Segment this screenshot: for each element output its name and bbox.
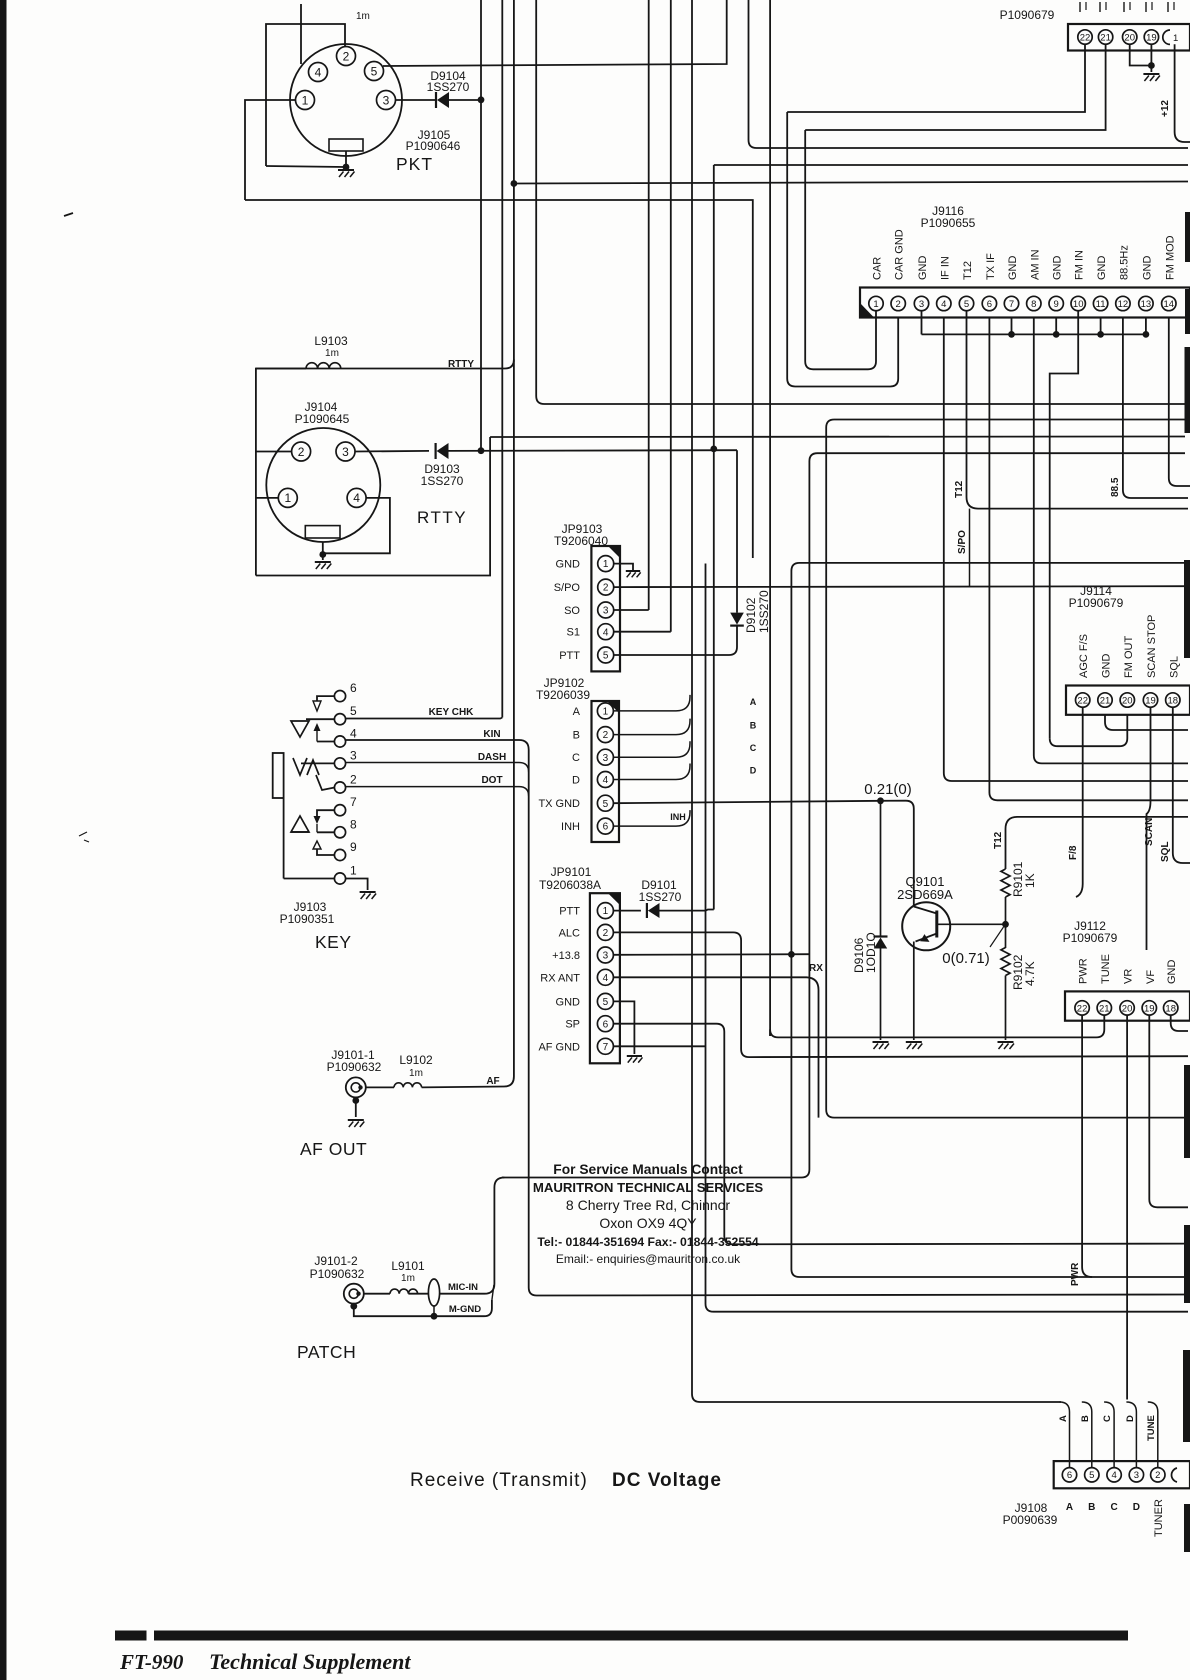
svg-text:DC Voltage: DC Voltage [612,1470,722,1491]
svg-text:DOT: DOT [481,775,502,786]
svg-text:S1: S1 [567,627,580,639]
ground of J9113 [1143,73,1159,75]
wire trunk x648 SO from top [648,0,650,610]
svg-text:4: 4 [353,491,360,505]
wire gnd riser J9116 [1055,318,1057,335]
wire pin3 JP9103 to trunk SO [614,609,649,611]
svg-text:B: B [573,730,580,742]
svg-text:SQL: SQL [1168,656,1180,678]
pin 7 J9116 (GND) [1004,296,1018,310]
pin 7 JP9101 (AF GND) [597,1038,613,1054]
wire trunk y437 east [490,436,1185,439]
svg-text:PWR: PWR [1078,958,1090,984]
svg-text:D: D [1125,1415,1136,1422]
svg-text:TUNER: TUNER [1153,1499,1165,1537]
pin 22 J9112 (PWR) [1075,1001,1089,1015]
diode D9103 1SS270 [435,443,437,459]
svg-text:6: 6 [1067,1470,1072,1481]
svg-text:C: C [1110,1502,1117,1513]
svg-text:2: 2 [603,583,609,594]
wire pin22 J9112 PWR down merge y1277 [1082,1015,1092,1277]
wire pin4 J9105 to top edge [300,4,302,64]
svg-text:A: A [1058,1415,1069,1422]
wire pin6 J9116 TX IF down-east [989,318,1188,801]
pin 22 J9114 (AGC F/S) [1076,693,1090,707]
svg-text:5: 5 [371,64,378,78]
pin 3 J9116 (GND) [914,296,928,310]
DIN connector J9104 RTTY body [266,428,380,542]
node PATCH jack stem [350,1303,357,1310]
phono jack J9101-2 [344,1284,364,1304]
wire pin10 J9116 FM IN jog down [1050,311,1079,739]
pin 9 J9116 (GND) [1049,296,1063,310]
wire pin2 J9105 up and left [266,24,345,166]
svg-text:7: 7 [350,795,357,809]
connector J9116 P1090655 box [860,288,1190,318]
wire pin6 JP9102 INH curl to bus [613,810,690,826]
svg-text:INH: INH [670,812,686,822]
wire pin20 J9112 VR down to bus corner [1126,1015,1128,1399]
phono jack J9101-1 [346,1077,366,1097]
svg-text:5: 5 [350,704,357,718]
wire pin2 JP9103 S/PO east [614,585,1188,588]
wire KEY 6 with switch arrow [317,696,335,701]
wire pin1 J9104 to left frame [256,497,278,499]
svg-text:21: 21 [1100,32,1111,43]
wire pin21 J9112 TUNE west to trunk x770 [770,1015,1104,1037]
pin 5 J9116 (T12) [959,296,973,310]
svg-text:AGC F/S: AGC F/S [1078,634,1090,678]
pin 13 J9116 (GND) [1139,296,1153,310]
svg-text:SP: SP [565,1019,580,1031]
svg-text:TUNE: TUNE [1146,1415,1157,1441]
wire vertical x713.8 y165-910 D9101 net [713,165,715,449]
svg-text:Receive (Transmit): Receive (Transmit) [410,1470,588,1491]
svg-text:9: 9 [350,840,357,854]
wire TX GND to collector [881,801,914,907]
wire pin4 JP9102 D curl to bus [613,764,690,780]
svg-text:P1090679: P1090679 [1069,596,1124,610]
wire pin7 JP9101 AF GND route [613,1045,705,1047]
svg-text:4: 4 [941,299,946,310]
pin 18 J9112 (GND) [1164,1001,1178,1015]
wire vertical x705.5 from y563 trunk to AF GND east exit [706,564,1189,1312]
svg-text:11: 11 [1096,299,1106,310]
svg-text:GND: GND [556,559,581,571]
KEY arrow contact between 4 and 5 [314,723,321,731]
wire pin3 J9105 to diode D9104 [395,99,436,101]
label 0(0.71) with callout [990,927,1004,947]
svg-text:L9101: L9101 [391,1259,425,1273]
pin 4 J9116 (IF IN) [937,296,951,310]
svg-text:4: 4 [603,973,609,984]
svg-text:GND: GND [1007,256,1019,281]
pin 4 JP9101 (RX ANT) [597,969,613,985]
wire GND bus J9116 [921,311,923,335]
wire pin19 J9114 SCAN STOP down [1147,707,1151,950]
svg-text:4: 4 [350,727,357,741]
wire pin4 J9116 IF IN down-east [944,318,1188,782]
svg-text:21: 21 [1099,1003,1110,1014]
svg-text:5: 5 [603,651,609,662]
ground of J9104 [322,542,324,553]
DIN connector J9105 PKT body [290,44,402,156]
svg-text:2: 2 [343,49,350,63]
svg-text:2SD669A: 2SD669A [897,887,953,902]
wire bus trunk x692 from top [691,0,693,1394]
wire S/PO riser to y509 [969,509,971,587]
svg-text:5: 5 [603,997,609,1008]
svg-text:GND: GND [1096,256,1108,281]
pin 14 J9116 (FM MOD) [1162,296,1176,310]
resistor R9102 4.7K [1005,924,1007,948]
pin 20 J9113 [1123,30,1137,44]
pin 4 JP9103 [598,624,614,640]
svg-text:3: 3 [603,606,609,617]
wire KIN bus bottom east [529,1288,1188,1296]
pin 5 of J9105 [365,62,384,81]
svg-text:SCAN: SCAN [1144,818,1155,846]
svg-text:T9206038A: T9206038A [539,878,601,892]
svg-text:P1090646: P1090646 [406,139,461,153]
svg-text:CAR: CAR [872,257,884,280]
wire trunk horizontal y183 east [514,182,1188,184]
pin 1 JP9101 (PTT) [597,903,613,919]
svg-text:5: 5 [1089,1470,1094,1481]
wire trunk x536 from top bend east y404 [536,0,1185,404]
pin 19 J9112 (VF) [1142,1001,1156,1015]
svg-text:1m: 1m [356,11,370,22]
pin 11 J9116 (GND) [1093,296,1107,310]
svg-text:6: 6 [987,299,992,310]
pin 2 J9116 (CAR GND) [891,296,905,310]
pin 12 J9116 (88.5Hz) [1116,296,1130,310]
connector JP9103 box [591,546,620,671]
svg-text:SQL: SQL [1160,841,1171,862]
svg-text:2: 2 [298,445,305,459]
svg-text:CAR GND: CAR GND [894,229,906,280]
pin 18 J9114 (SQL) [1166,693,1180,707]
svg-text:C: C [572,752,580,764]
wire trunk x791 top corner y563 east [791,563,1188,1277]
svg-text:Technical Supplement: Technical Supplement [209,1649,411,1674]
pin 21 J9112 (TUNE) [1097,1001,1111,1015]
pin 10 J9116 (FM IN) [1071,296,1085,310]
svg-text:D: D [1133,1502,1140,1513]
ground of D9106 [873,1041,889,1043]
wire J9104 frame bottom to trunk x490 [256,437,490,576]
svg-text:1: 1 [603,906,609,917]
wire pin18 J9112 GND exit right [1171,1015,1188,1031]
diode D9104 1SS270 [435,92,437,108]
bus drop TUNE to J9108 pin2 [1148,1402,1158,1468]
svg-text:Tel:- 01844-351694 Fax:- 01844: Tel:- 01844-351694 Fax:- 01844-352554 [537,1235,759,1249]
pin 1 J9116 (CAR) [869,296,883,310]
wire pin5 J9116 T12 down [967,311,1189,509]
connector JP9102 box [592,701,620,842]
footer rule bar [115,1631,1128,1641]
svg-text:VF: VF [1145,970,1157,984]
svg-text:A: A [1066,1502,1073,1513]
bus drop D to J9108 pin3 [1126,1402,1136,1468]
wire pin20 pin19 J9113 to ground [1130,44,1152,65]
pin 21 J9114 (GND) [1098,693,1112,707]
svg-text:D: D [750,766,757,776]
svg-text:P1090645: P1090645 [295,412,350,426]
svg-text:0.21(0): 0.21(0) [864,781,912,798]
svg-text:RX ANT: RX ANT [540,972,580,984]
connector J9114 P1090679 box [1066,686,1190,715]
node base R9101 R9102 junction [1002,921,1009,928]
svg-text:2: 2 [896,299,901,310]
svg-text:FM MOD: FM MOD [1164,235,1176,280]
svg-text:9: 9 [1054,299,1059,310]
KEY 8 triangle contact [317,831,335,833]
svg-text:1: 1 [603,559,609,570]
wire D9102 branch down to PTT of JP9103 [730,613,744,625]
svg-text:KEY: KEY [315,932,352,952]
svg-text:2: 2 [350,773,357,787]
wire+ground pin1 JP9103 [614,564,633,570]
connector J9113 P1090679 box top right [1068,24,1190,51]
svg-text:B: B [1088,1502,1095,1513]
svg-text:J9101-2: J9101-2 [314,1254,358,1268]
KEY contact 9 [334,849,345,860]
svg-text:F/8: F/8 [1068,845,1079,860]
wire pin2 J9104 to left frame [256,451,292,453]
wire KEY 5 east KEY CHK [346,718,503,719]
feedthrough capacitor on MIC-IN [408,1293,428,1295]
svg-text:PATCH: PATCH [297,1342,356,1362]
svg-text:18: 18 [1165,1003,1176,1014]
right page-edge bar 8 [1184,1504,1190,1552]
svg-text:GND: GND [1101,654,1113,679]
svg-text:3: 3 [603,951,609,962]
svg-text:DASH: DASH [478,752,506,763]
svg-text:VR: VR [1123,969,1135,984]
pin 2 J9108 [1151,1468,1165,1482]
pin 4 of J9105 [309,63,328,82]
pin 21 J9113 [1098,30,1112,44]
KEY contact 5 [334,714,345,725]
wire pin1 JP9102 A curl to bus [613,695,690,711]
svg-text:TX GND: TX GND [538,798,580,810]
pin 19 J9113 [1144,30,1158,44]
pin 3 JP9103 [598,602,614,618]
pin 3 of J9105 [377,91,396,110]
svg-text:P1090655: P1090655 [921,216,976,230]
wire KEY 1 to body and ground [284,878,335,880]
wire RTTY branch curve at y366 [256,360,514,369]
node +13.8 branch [788,951,795,958]
wire trunk y420 from x826 bend [826,420,1188,1118]
wire pin3 JP9102 C curl to bus [613,741,690,757]
stray mark left lower [79,832,89,842]
wire pin21 J9114 GND east [1105,715,1188,730]
svg-text:3: 3 [342,445,349,459]
svg-text:4.7K: 4.7K [1023,961,1037,986]
svg-text:T12: T12 [954,480,965,498]
pin 6 JP9102 (INH) [597,818,613,834]
wire PKT pin1 trunk y200 east to x752.8 [245,200,753,558]
svg-text:7: 7 [603,1042,609,1053]
wire pin12 J9116 88.5Hz down-east [1123,318,1188,499]
svg-text:PKT: PKT [396,154,433,174]
pin 1 of J9105 [296,91,315,110]
pin 8 J9116 (AM IN) [1027,296,1041,310]
pin 20 J9114 (FM OUT) [1120,693,1134,707]
svg-text:20: 20 [1124,32,1135,43]
svg-text:21: 21 [1100,695,1111,706]
svg-text:JP9101: JP9101 [551,865,592,879]
wire bus x692 corner east y1402 [692,1394,1061,1402]
wire D9103 net east to D9102 [449,449,738,452]
wire AF trunk x513.9 down with RTTY branch [513,184,515,1069]
svg-text:P1090679: P1090679 [1000,8,1055,22]
connector JP9101 box [590,893,620,1063]
resistor R9101 1K [1006,817,1189,869]
svg-text:GND: GND [917,256,929,281]
svg-text:3: 3 [919,299,924,310]
svg-text:4: 4 [315,65,322,79]
svg-text:S/PO: S/PO [554,582,581,594]
svg-text:19: 19 [1144,1003,1155,1014]
svg-text:AF GND: AF GND [538,1041,580,1053]
svg-text:1SS270: 1SS270 [757,590,771,633]
svg-text:1m: 1m [325,348,339,359]
wire CAR GND net: pin22 route down to J9116 pin2 [787,112,898,387]
svg-text:4: 4 [603,775,609,786]
KEY jack body J9103 [273,753,284,798]
partial pin J9108 page edge [1171,1468,1177,1482]
right page-edge bar 6 [1184,1225,1190,1303]
svg-text:7: 7 [1009,299,1014,310]
svg-text:FM OUT: FM OUT [1123,636,1135,678]
svg-text:D9102: D9102 [744,597,758,633]
right page-edge bar 1 [1185,212,1190,262]
wire trunk y453.8 from x809 bend / MIC riser [502,453,1185,1177]
pin 4 of J9104 [347,488,366,507]
wire pin4 J9104 loop to ground [323,498,390,553]
wire KEY 3 east DASH merge bus [301,762,335,764]
svg-text:AF: AF [486,1076,499,1087]
svg-text:22: 22 [1080,32,1091,43]
bus drop A to J9108 pin6 [1060,1402,1070,1468]
svg-text:20: 20 [1122,1003,1133,1014]
svg-text:T12: T12 [993,831,1004,849]
pin 1 JP9103 [598,556,614,572]
diode D9106 10D10 [880,801,882,936]
pin 5 JP9102 (TX GND) [597,795,613,811]
svg-text:+12: +12 [1160,100,1171,117]
ground of R9102 [998,1041,1014,1043]
svg-text:P0090639: P0090639 [1003,1513,1058,1527]
pin 2 JP9103 [598,579,614,595]
KEY contact 2 [334,782,345,793]
pin 3 J9108 [1129,1468,1143,1482]
svg-text:2: 2 [1155,1470,1160,1481]
pin 2 of J9104 [292,442,311,461]
svg-text:PTT: PTT [559,650,580,662]
wire pin3 JP9101 +13.8 east [613,953,810,956]
svg-text:5: 5 [603,799,609,810]
pin 19 J9114 (SCAN STOP) [1143,693,1157,707]
wire pin14 J9116 FM MOD down-east [1169,318,1190,487]
svg-text:RTTY: RTTY [417,508,467,527]
svg-text:13: 13 [1141,299,1152,310]
pin 1 of J9104 [278,488,297,507]
svg-text:AM IN: AM IN [1029,249,1041,280]
wire KEY 9 with up arrow [317,849,335,855]
svg-text:22: 22 [1077,695,1088,706]
wire M-GND from jack to riser [354,1300,492,1316]
wire pin2 JP9102 B curl to bus [613,719,690,735]
svg-text:1SS270: 1SS270 [421,474,464,488]
ground of J9101-1 [355,1097,357,1117]
svg-text:RTTY: RTTY [448,359,474,370]
wire pin4 JP9103 to trunk S1 [614,631,671,633]
svg-text:P1090351: P1090351 [280,912,335,926]
pin 5 JP9101 (GND) [597,993,613,1009]
wire KEY 7 with arrow [317,810,335,816]
svg-text:18: 18 [1168,695,1179,706]
wire pin3 J9104 to diode D9103 [355,450,429,453]
right page-edge bar 3 [1185,347,1190,433]
pin 5 J9108 [1085,1468,1099,1482]
wire pin1 J9105 left and down to y200 trunk [245,100,296,200]
svg-text:Email:- enquiries@mauritron.co: Email:- enquiries@mauritron.co.uk [556,1252,741,1266]
svg-text:1: 1 [603,707,609,718]
svg-text:GND: GND [1141,256,1153,281]
svg-text:6: 6 [350,681,357,695]
svg-text:14: 14 [1164,299,1175,310]
wire +12 line at page edge [1175,44,1190,142]
wire KEY 5 with triangle contact [306,718,335,720]
ground of Q9101 emitter [906,1041,922,1043]
svg-text:MIC-IN: MIC-IN [448,1282,478,1293]
svg-text:INH: INH [561,821,580,833]
svg-text:For Service Manuals Contact: For Service Manuals Contact [553,1162,743,1177]
svg-text:20: 20 [1122,695,1133,706]
pin 5 JP9103 [598,647,614,663]
svg-text:8 Cherry Tree Rd, Chinnor: 8 Cherry Tree Rd, Chinnor [566,1197,731,1213]
pin 2 of J9105 [337,47,356,66]
svg-text:GND: GND [1052,256,1064,281]
svg-text:1SS270: 1SS270 [639,890,682,904]
svg-text:GND: GND [1166,960,1178,985]
svg-text:88.5: 88.5 [1110,477,1121,497]
svg-text:L9102: L9102 [399,1053,433,1067]
svg-text:KEY CHK: KEY CHK [429,707,475,718]
connector J9108 P0090639 box [1054,1461,1190,1488]
wire pin1 JP9101 to diode D9101 [613,910,641,912]
svg-text:8: 8 [1031,299,1036,310]
wire trunk x748 bend east y148 [749,0,1189,148]
node junction pin3 net [478,96,485,103]
svg-text:22: 22 [1077,1003,1088,1014]
svg-text:L9103: L9103 [314,334,348,348]
right page-edge bar 5 [1184,1065,1190,1158]
svg-text:PWR: PWR [1070,1262,1081,1286]
right page-edge bar 7 [1183,1350,1190,1442]
pin 1 JP9102 (A) [597,703,613,719]
wire left of L9103 down to J9104 frame [256,369,306,576]
diode D9101 1SS270 [646,903,648,918]
pin 4 J9108 [1107,1468,1121,1482]
node TX GND 0.21(0) [877,797,884,804]
wire AF to riser x513.9 [422,1068,514,1087]
wire gnd riser J9116 [1100,318,1102,335]
